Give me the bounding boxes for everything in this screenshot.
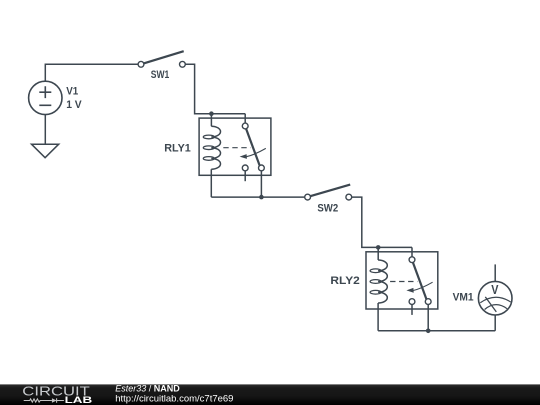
voltmeter V glyph [491,282,498,297]
inductor coil RLY1 [203,126,220,169]
voltage source V1 [29,81,62,114]
footer title Ester33 / NAND [115,384,180,394]
svg-text:SW1: SW1 [151,69,170,81]
relay RLY1 box [199,118,271,175]
logo CIRCUIT [22,384,90,399]
node junction RLY1 bottom [259,195,264,200]
svg-text:V: V [491,282,498,297]
svg-text:http://circuitlab.com/c7t7e69: http://circuitlab.com/c7t7e69 [115,394,233,405]
svg-text:LAB: LAB [65,395,93,405]
RLY2 switch common wire [411,247,413,256]
RLY1 switch common wire [244,114,246,123]
wire RLY2 outputs to bottom rail [378,303,495,331]
wire junction to RLY1 coil [210,114,212,127]
label V1 value [66,85,82,110]
svg-text:SW2: SW2 [317,202,338,214]
dashed link RLY1 [223,147,250,149]
inductor coil RLY2 [370,260,387,303]
wire V1 top to SW1 [45,64,138,81]
wire SW1 to RLY1 [185,64,245,113]
label RLY1 [164,143,191,155]
RLY2 NC stub [411,305,413,315]
ground [32,144,59,158]
RLY1 switch terminals [242,123,264,171]
logo LAB [65,395,93,405]
voltmeter VM1 [478,264,512,330]
label VM1 [453,291,474,303]
svg-text:Ester33 / NAND: Ester33 / NAND [115,384,180,394]
RLY1 NC stub [244,171,246,181]
label SW2 [317,202,338,214]
wire V1 to ground [44,115,46,145]
wire RLY1 outputs to bottom rail [211,169,304,197]
RLY2 switch terminals [409,257,431,305]
wire SW2 to RLY2 [352,197,412,247]
footer bar [0,384,540,405]
RLY2 switch lever [413,262,427,299]
footer url [115,394,233,405]
relay RLY2 box [366,252,438,309]
logo resistor-diode icon [24,398,64,403]
switch SW1 [138,51,185,67]
label RLY2 [330,275,359,287]
RLY1 switch lever [246,129,260,166]
node junction RLY2 bottom [426,329,431,334]
svg-text:V1: V1 [66,85,78,97]
svg-text:RLY2: RLY2 [330,275,359,287]
dashed link RLY2 [390,281,417,283]
svg-text:RLY1: RLY1 [164,143,191,155]
switch SW2 [305,185,352,200]
node junction SW1/RLY1 coil [209,111,214,116]
RLY2 arrow [406,282,432,293]
node junction SW2/RLY2 coil [376,245,381,250]
svg-text:1 V: 1 V [66,99,82,111]
svg-text:VM1: VM1 [453,291,474,303]
RLY1 arrow [240,148,266,159]
wire junction to RLY2 coil [377,247,379,260]
label SW1 [151,69,170,81]
